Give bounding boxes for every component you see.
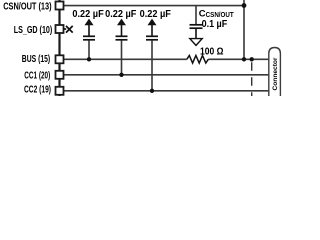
device edge line	[58, 0, 60, 96]
svg-text:BUS (15): BUS (15)	[22, 54, 50, 65]
svg-text:0.22 µF: 0.22 µF	[105, 9, 136, 20]
pin CC2 (19)	[56, 87, 64, 95]
capacitor CCSN/OUT 0.1uF branch	[190, 6, 203, 39]
pin CC1 (20)	[56, 71, 64, 79]
svg-text:CC2 (19): CC2 (19)	[24, 84, 51, 95]
wire vertical down from top rail to BUS	[243, 0, 245, 59]
svg-text:CCSN/OUT: CCSN/OUT	[199, 9, 234, 20]
ground	[190, 39, 202, 46]
svg-text:100 Ω: 100 Ω	[200, 47, 223, 58]
wire CC1	[64, 74, 269, 76]
no-connect X on LS_GD	[64, 26, 73, 33]
wire CC2	[64, 90, 269, 92]
node junction top corner	[242, 3, 247, 8]
connector body	[269, 48, 281, 97]
resistor R1 100 Ohm	[187, 56, 209, 64]
svg-text:Connector: Connector	[273, 57, 279, 91]
capacitor C2 0.22uF branch (to CC1)	[116, 19, 128, 77]
svg-text:0.1 µF: 0.1 µF	[202, 19, 228, 30]
wire dashed optional drop	[251, 62, 253, 96]
wire BUS right segment	[208, 58, 268, 60]
svg-text:0.22 µF: 0.22 µF	[140, 9, 171, 20]
svg-text:0.22 µF: 0.22 µF	[72, 9, 103, 20]
capacitor C1 0.22uF branch (to BUS)	[83, 19, 95, 62]
svg-text:LS_GD (10): LS_GD (10)	[14, 25, 53, 36]
capacitor C3 0.22uF branch (to CC2)	[146, 19, 158, 93]
wire CSN/OUT top rail	[64, 5, 245, 7]
node junction BUS drop	[242, 57, 246, 61]
wire BUS left segment	[64, 58, 187, 60]
svg-text:CSN/OUT (13): CSN/OUT (13)	[3, 1, 51, 12]
pin LS_GD (10)	[56, 25, 64, 33]
svg-text:CC1 (20): CC1 (20)	[24, 70, 50, 81]
pin CSN/OUT (13)	[56, 2, 64, 10]
pin BUS (15)	[56, 55, 64, 63]
node junction dashed drop	[250, 57, 254, 61]
